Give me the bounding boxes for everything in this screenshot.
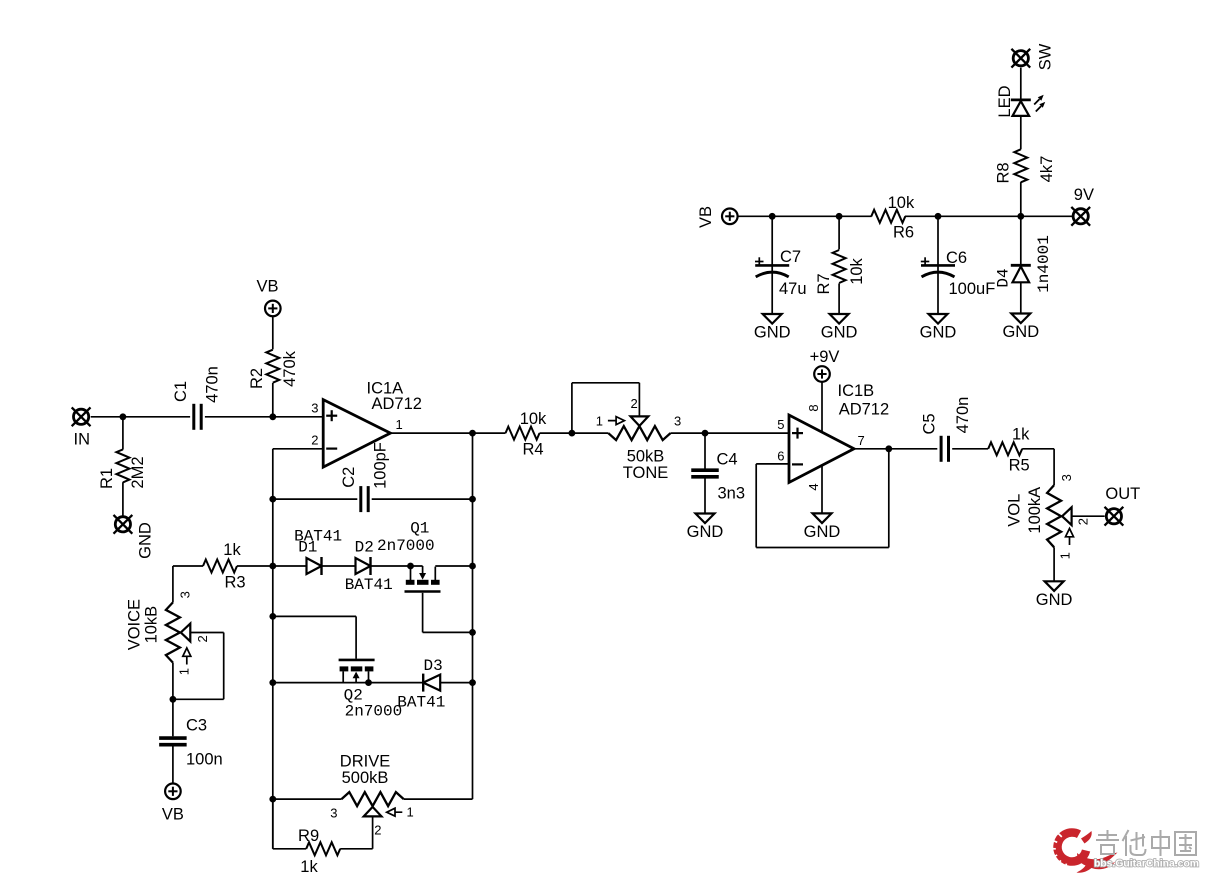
svg-text:D2: D2 xyxy=(355,539,374,557)
svg-text:4: 4 xyxy=(806,483,821,490)
C7 plus mark xyxy=(755,261,764,263)
svg-text:1k: 1k xyxy=(223,541,241,559)
svg-text:R9: R9 xyxy=(298,827,319,845)
wire R2 to junction xyxy=(272,383,274,417)
svg-text:VB: VB xyxy=(162,806,184,824)
resistor R2 xyxy=(266,350,279,383)
svg-text:C6: C6 xyxy=(946,249,967,267)
wire C6 branch xyxy=(937,216,939,314)
wire VOL wiper to OUT xyxy=(1072,515,1105,517)
svg-text:3: 3 xyxy=(1059,474,1074,481)
capacitor C6 (polarized) xyxy=(921,265,955,277)
svg-text:C4: C4 xyxy=(717,451,738,469)
diode D4 xyxy=(1011,265,1031,282)
svg-text:GND: GND xyxy=(754,324,791,342)
node C7 junction xyxy=(769,213,776,220)
LED arrows xyxy=(1034,95,1045,112)
ground VOL xyxy=(1036,581,1073,609)
terminal VB (R2 top) xyxy=(265,301,281,317)
svg-text:IC1B: IC1B xyxy=(838,382,875,400)
wire junction to R1 xyxy=(122,417,124,450)
node IC1B output junction xyxy=(885,445,892,452)
wire DRIVE wiper to R9 xyxy=(372,816,374,848)
svg-text:3: 3 xyxy=(177,591,192,598)
svg-text:C5: C5 xyxy=(920,413,938,434)
wire left bus xyxy=(272,499,274,849)
wire C2 row right xyxy=(372,498,473,500)
wire Q2 gate lead xyxy=(273,615,356,617)
svg-text:+9V: +9V xyxy=(810,348,840,366)
svg-text:2: 2 xyxy=(374,823,381,838)
potentiometer DRIVE 500kB xyxy=(342,792,404,806)
svg-text:10k: 10k xyxy=(520,410,547,428)
wire R8 to rail xyxy=(1020,182,1022,216)
svg-text:100n: 100n xyxy=(186,751,223,769)
wire TONE bypass loop xyxy=(571,383,573,433)
svg-text:470n: 470n xyxy=(204,366,222,403)
wire D1 to D2 xyxy=(322,565,356,567)
svg-text:GND: GND xyxy=(136,522,154,559)
potentiometer VOL 100kA xyxy=(1047,485,1061,547)
resistor R9 xyxy=(306,842,340,855)
diode LED xyxy=(1011,100,1031,116)
wire C5 to R5 xyxy=(952,448,988,450)
op-amp IC1B plus input mark xyxy=(792,432,803,434)
svg-text:BAT41: BAT41 xyxy=(345,576,393,594)
wire C7 branch xyxy=(771,216,773,314)
node left bus DRIVE row xyxy=(269,796,276,803)
svg-text:8: 8 xyxy=(806,404,821,411)
op-amp IC1A plus input mark xyxy=(326,415,337,417)
transistor Q2 xyxy=(339,660,375,683)
svg-text:2M2: 2M2 xyxy=(129,456,147,488)
terminal +9V xyxy=(814,366,830,382)
VOICE wiper xyxy=(181,624,191,642)
ground C6 xyxy=(920,314,957,342)
resistor R3 xyxy=(203,560,237,573)
svg-text:100uF: 100uF xyxy=(949,280,996,298)
wire C2 row left xyxy=(273,498,358,500)
svg-text:DRIVE: DRIVE xyxy=(340,753,390,771)
resistor R7 xyxy=(833,250,846,283)
op-amp IC1B minus input mark xyxy=(792,463,803,465)
wire IN to C1 xyxy=(91,416,190,418)
capacitor C5 xyxy=(941,436,948,462)
resistor R5 xyxy=(988,442,1022,455)
node IC1A output junction xyxy=(469,430,476,437)
svg-text:VB: VB xyxy=(697,206,715,228)
wire D3 to right bus xyxy=(440,682,472,684)
wire R7 to ground xyxy=(838,283,840,314)
capacitor C1 xyxy=(194,404,201,430)
svg-text:R3: R3 xyxy=(224,574,245,592)
wire VB to R2 xyxy=(272,316,274,349)
wire IC1B output xyxy=(854,448,937,450)
wire R5 to VOL xyxy=(1022,448,1054,450)
svg-text:1k: 1k xyxy=(1012,426,1030,444)
node C4 junction xyxy=(702,430,709,437)
svg-text:3: 3 xyxy=(330,806,337,821)
node left bus D1 row xyxy=(269,563,276,570)
ground C7 xyxy=(754,314,791,342)
ground IC1B xyxy=(804,513,841,541)
svg-text:C7: C7 xyxy=(780,248,801,266)
svg-text:3: 3 xyxy=(311,400,318,415)
svg-text:IN: IN xyxy=(74,431,91,449)
node R7 junction xyxy=(836,213,843,220)
svg-text:GND: GND xyxy=(1002,323,1039,341)
svg-text:2n7000: 2n7000 xyxy=(377,537,435,555)
watermark logo G (red dragon) xyxy=(1050,829,1118,872)
svg-text:C3: C3 xyxy=(186,717,207,735)
ground D4 xyxy=(1002,314,1039,342)
resistor R1 xyxy=(116,449,129,482)
svg-text:3: 3 xyxy=(674,414,681,429)
wire LED to R8 xyxy=(1020,116,1022,149)
svg-text:BAT41: BAT41 xyxy=(397,694,445,712)
svg-text:C2: C2 xyxy=(340,467,358,488)
node right bus D3 row xyxy=(469,679,476,686)
wire right bus xyxy=(472,433,474,799)
wire R3 right xyxy=(237,565,273,567)
svg-text:500kB: 500kB xyxy=(342,769,389,787)
svg-text:2n7000: 2n7000 xyxy=(345,703,403,721)
svg-text:3n3: 3n3 xyxy=(718,485,746,503)
svg-text:GND: GND xyxy=(821,324,858,342)
svg-text:50kB: 50kB xyxy=(627,448,665,466)
op-amp IC1A xyxy=(323,400,390,468)
node TONE left junction xyxy=(569,430,576,437)
capacitor C2 xyxy=(361,486,368,512)
node left bus Q2 source row xyxy=(269,679,276,686)
wire C4 bottom xyxy=(704,477,706,514)
resistor R6 xyxy=(871,210,905,223)
wire VOICE bottom xyxy=(172,663,174,737)
node Q1 drain junction xyxy=(407,563,414,570)
op-amp IC1A minus input mark xyxy=(326,448,337,450)
wire C1 to pin3 xyxy=(205,416,323,418)
svg-text:C1: C1 xyxy=(172,381,190,402)
wire Q1 source to right bus xyxy=(435,565,472,567)
svg-text:bbs.GuitarChina.com: bbs.GuitarChina.com xyxy=(1094,858,1199,869)
svg-text:VOL: VOL xyxy=(1006,494,1024,527)
svg-text:TONE: TONE xyxy=(623,464,669,482)
wire VOICE wiper loop xyxy=(190,632,223,634)
diode D3 xyxy=(423,674,440,692)
svg-text:AD712: AD712 xyxy=(839,401,889,419)
svg-text:Q1: Q1 xyxy=(410,519,429,537)
svg-text:100pF: 100pF xyxy=(372,442,390,489)
wire pin2 from left bus xyxy=(273,448,323,450)
svg-text:D4: D4 xyxy=(995,268,1013,287)
node right bus D1 row xyxy=(469,563,476,570)
wire IC1B feedback loop xyxy=(888,449,890,548)
svg-text:VOICE: VOICE xyxy=(125,599,143,650)
C6 plus mark xyxy=(921,261,930,263)
wire +9V to pin8 xyxy=(821,382,823,432)
svg-text:9V: 9V xyxy=(1074,186,1094,204)
svg-text:R1: R1 xyxy=(98,468,116,489)
node R2 junction xyxy=(269,413,276,420)
DRIVE wiper xyxy=(364,807,382,817)
svg-text:1: 1 xyxy=(596,414,603,429)
wire VB rail left xyxy=(738,215,872,217)
svg-text:5: 5 xyxy=(777,417,784,432)
wire R7 branch top xyxy=(838,216,840,249)
svg-text:2: 2 xyxy=(630,396,637,411)
wire SW to LED xyxy=(1020,68,1022,100)
svg-text:4k7: 4k7 xyxy=(1038,156,1056,183)
node input junction xyxy=(120,413,127,420)
wire pin4 to ground xyxy=(821,465,823,513)
node R8/D4 junction xyxy=(1017,213,1024,220)
node C6 junction xyxy=(935,213,942,220)
TONE wiper xyxy=(631,416,649,426)
svg-text:OUT: OUT xyxy=(1105,485,1140,503)
svg-text:R5: R5 xyxy=(1009,457,1030,475)
svg-text:2: 2 xyxy=(1075,518,1090,525)
wire DRIVE row left xyxy=(273,798,342,800)
terminal IN xyxy=(72,407,91,426)
wire R3 left xyxy=(173,565,203,567)
svg-text:2: 2 xyxy=(311,433,318,448)
svg-text:R4: R4 xyxy=(522,441,543,459)
svg-text:GND: GND xyxy=(687,523,724,541)
terminal VB (C3) xyxy=(165,784,181,800)
node Q2 source junction xyxy=(365,679,372,686)
wire VOL to ground xyxy=(1053,547,1055,581)
wire Q2 row xyxy=(273,682,423,684)
potentiometer TONE 50kB xyxy=(608,426,670,440)
svg-text:GND: GND xyxy=(804,523,841,541)
wire R4 to TONE xyxy=(540,432,609,434)
wire VOICE top xyxy=(172,566,174,602)
capacitor C4 xyxy=(691,470,719,477)
capacitor C7 (polarized) xyxy=(755,265,789,277)
potentiometer VOICE 10kB xyxy=(166,602,180,662)
svg-text:D1: D1 xyxy=(298,539,317,557)
svg-text:6: 6 xyxy=(777,448,784,463)
svg-text:1: 1 xyxy=(1058,552,1073,559)
wire C3 to VB xyxy=(172,745,174,784)
terminal GND (input) xyxy=(114,515,133,534)
svg-text:10kB: 10kB xyxy=(142,606,160,644)
svg-text:R2: R2 xyxy=(248,368,266,389)
svg-text:2: 2 xyxy=(195,635,210,642)
wire Q1 gate lead xyxy=(422,593,424,633)
ground R7 xyxy=(821,314,858,342)
wire rail right xyxy=(905,215,1073,217)
svg-text:VB: VB xyxy=(256,278,278,296)
node C2 right junction xyxy=(469,496,476,503)
node C3 junction xyxy=(170,696,177,703)
transistor Q1 xyxy=(405,566,441,592)
wire D2 to Q1 xyxy=(371,565,423,567)
diode D1 xyxy=(307,557,322,575)
VOL wiper xyxy=(1062,507,1072,525)
svg-text:LED: LED xyxy=(996,85,1014,117)
wire C4 top xyxy=(704,433,706,470)
wire D4 to ground xyxy=(1020,283,1022,314)
svg-text:100kA: 100kA xyxy=(1026,487,1044,534)
svg-text:47u: 47u xyxy=(779,280,807,298)
wire IC1A output xyxy=(390,432,505,434)
svg-text:1: 1 xyxy=(407,805,414,820)
svg-text:D3: D3 xyxy=(424,657,443,675)
resistor R8 xyxy=(1014,149,1027,182)
svg-text:GND: GND xyxy=(1036,591,1073,609)
node left bus Q2 gate row xyxy=(269,613,276,620)
wire DRIVE right xyxy=(404,798,473,800)
svg-text:1k: 1k xyxy=(300,858,318,876)
svg-text:10k: 10k xyxy=(848,257,866,284)
wire D1 row left xyxy=(273,565,307,567)
capacitor C3 xyxy=(159,738,187,745)
terminal VB (rail) xyxy=(722,209,738,225)
svg-text:AD712: AD712 xyxy=(372,395,422,413)
svg-text:R8: R8 xyxy=(995,162,1013,183)
wire R9 to left bus xyxy=(273,848,306,850)
diode D2 xyxy=(356,557,371,575)
terminal 9V xyxy=(1071,207,1090,226)
node C2 left junction xyxy=(269,496,276,503)
svg-text:GND: GND xyxy=(920,324,957,342)
wire R1 to GND pad xyxy=(122,482,124,517)
wire TONE to C4 node xyxy=(671,432,790,434)
svg-text:470n: 470n xyxy=(954,397,972,434)
op-amp IC1B xyxy=(789,415,854,483)
svg-text:1: 1 xyxy=(396,417,403,432)
resistor R4 xyxy=(506,427,540,440)
svg-text:1: 1 xyxy=(176,668,191,675)
svg-text:7: 7 xyxy=(858,433,865,448)
ground C4 xyxy=(687,514,724,542)
svg-text:R6: R6 xyxy=(893,224,914,242)
svg-text:1n4001: 1n4001 xyxy=(1035,235,1053,293)
svg-text:470k: 470k xyxy=(281,350,299,387)
node right bus Q1 gate row xyxy=(469,629,476,636)
wire D4 branch xyxy=(1020,216,1022,265)
terminal OUT xyxy=(1105,507,1124,526)
terminal SW xyxy=(1011,49,1030,68)
svg-text:10k: 10k xyxy=(888,194,915,212)
watermark text GuitarChina xyxy=(1096,830,1196,856)
svg-text:SW: SW xyxy=(1036,43,1054,70)
svg-text:R7: R7 xyxy=(815,273,833,294)
